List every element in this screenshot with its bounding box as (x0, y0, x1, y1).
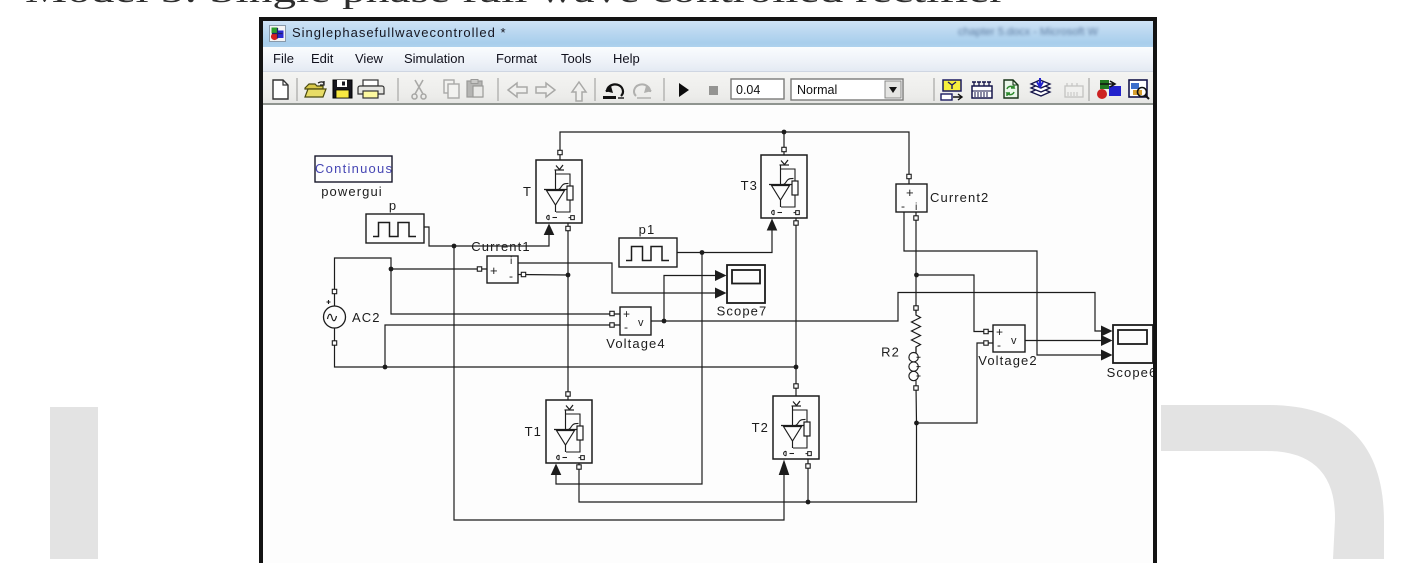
port R2 bottom (914, 386, 918, 390)
redo icon (disabled) (634, 84, 652, 99)
node p1 output branch (700, 250, 705, 255)
node AC2 plus branch (389, 267, 394, 272)
wire: R2 bottom to T1/T2 cathode rail (579, 386, 917, 502)
wire: pulse p output to T gate (424, 227, 549, 246)
wire: junction up to T3 cathode (795, 218, 797, 367)
port T2 anode (794, 384, 798, 388)
svg-text:v: v (1011, 335, 1017, 347)
svg-text:Current2: Current2 (930, 190, 989, 205)
scope Scope7 (727, 265, 765, 303)
thyristor T2 (773, 396, 819, 459)
forward arrow icon (536, 83, 555, 97)
arrow into Scope6 input 3 (1101, 350, 1113, 361)
svg-text:p: p (389, 198, 397, 213)
port Current2 plus (907, 174, 911, 178)
undo icon (603, 84, 624, 99)
copy icon (disabled) (444, 80, 459, 98)
svg-text:AC2: AC2 (352, 310, 381, 325)
sim mode dropdown (791, 79, 903, 100)
cut scissors icon (disabled) (412, 80, 426, 99)
svg-text:R2: R2 (881, 345, 900, 360)
port Current1 minus (521, 272, 525, 276)
svg-text:Scope7: Scope7 (717, 304, 768, 319)
svg-text:+: + (906, 185, 914, 200)
arrow into Scope6 input 1 (1101, 326, 1113, 337)
port T2 cathode (806, 464, 810, 468)
port squares (332, 147, 988, 469)
port T anode (558, 150, 562, 154)
current measurement Current1 (487, 255, 518, 283)
svg-text:Voltage2: Voltage2 (978, 353, 1037, 368)
port T cathode (566, 226, 570, 230)
arrow into Scope7 input 1 (715, 270, 727, 281)
node T2 cathode junction (806, 500, 811, 505)
powergui block (315, 156, 393, 182)
arrow into Scope7 input 2 (715, 288, 727, 299)
wire: R2 top tap to Voltage2 plus (917, 275, 994, 332)
svg-text:+: + (623, 307, 630, 321)
wire: AC2 minus rail (335, 328, 797, 367)
AC source AC2 (324, 300, 346, 328)
svg-text:T1: T1 (525, 424, 542, 439)
arrow into T2 gate (779, 460, 790, 476)
port T3 anode (782, 147, 786, 151)
play button (679, 83, 689, 97)
cropped document headline above the window (0, 0, 1415, 14)
svg-text:T3: T3 (741, 178, 758, 193)
series RL branch R2 (909, 310, 921, 386)
up arrow icon (572, 82, 586, 101)
toggle browser icon (972, 82, 992, 98)
update diagram icon (1004, 80, 1018, 98)
port AC2 minus (332, 341, 336, 345)
wire: Voltage2 output to Scope6 input 2 (1025, 340, 1101, 342)
wire: top rail from T anode to Current2 (560, 132, 909, 184)
wire: Current2 minus to R2 top (915, 212, 917, 313)
node Current2/R2/Voltage2 tap (914, 273, 919, 278)
arrow into Scope6 input 2 (1101, 335, 1113, 346)
svg-text:-: - (509, 269, 513, 283)
node T3 cathode / T2 anode junction (794, 365, 799, 370)
wire: branch to Current1 plus (391, 268, 487, 270)
pulse generator p1 (619, 238, 677, 267)
voltage measurement Voltage4 (620, 307, 651, 335)
sim time field (731, 79, 784, 99)
wire: R2 bottom tap to Voltage2 minus (917, 343, 994, 423)
model explorer icon (1129, 80, 1149, 99)
stop button (disabled) (709, 86, 718, 95)
arrow into T gate (544, 224, 555, 236)
port R2 top (914, 306, 918, 310)
port Voltage2 plus (984, 329, 988, 333)
node at T3 riser (782, 130, 787, 135)
port T3 cathode (794, 221, 798, 225)
toolbar separators (297, 78, 1089, 101)
wire: Current2 i output to Scope6 input 3 (904, 212, 1101, 355)
print icon (358, 80, 384, 98)
svg-text:-: - (901, 199, 905, 213)
svg-text:powergui: powergui (321, 184, 383, 199)
node p output branch (452, 244, 457, 249)
disabled browser icon (1065, 83, 1083, 97)
arrow into T1 gate (551, 464, 562, 476)
svg-text:i: i (510, 255, 512, 267)
wire: Current1 minus to node (518, 274, 568, 277)
window border overdraw (1153, 17, 1157, 559)
svg-text:T: T (523, 184, 532, 199)
application window (259, 17, 1157, 563)
thyristor T3 (761, 155, 807, 218)
svg-text:Voltage4: Voltage4 (606, 336, 665, 351)
port T1 cathode (577, 465, 581, 469)
current measurement Current2 (896, 184, 927, 213)
pulse generator p (366, 214, 424, 243)
wire: p1 branch down to T1 gate (556, 253, 702, 485)
wire: AC2 plus to Current1 and Voltage4 plus (335, 258, 621, 314)
svg-text:Normal: Normal (797, 83, 837, 97)
svg-text:Scope6: Scope6 (1107, 365, 1158, 380)
port Voltage4 plus (610, 311, 614, 315)
wire: branch to Scope7 input 1 (664, 276, 715, 322)
wire: pulse p1 output to T3 gate (677, 231, 772, 253)
wire: Voltage4 output to Scope6 input 1 (651, 293, 1101, 332)
wire: T2 cathode drop (807, 459, 809, 502)
wire: T3 anode riser (783, 132, 785, 155)
svg-text:-: - (997, 338, 1001, 352)
voltage measurement Voltage2 (993, 325, 1025, 352)
wire: p branch down to T2 gate (454, 246, 784, 520)
wire: T cathode to T1 anode (567, 223, 569, 400)
node AC2 minus branch (383, 365, 388, 370)
svg-text:+: + (996, 325, 1003, 339)
svg-text:0.04: 0.04 (736, 83, 760, 97)
svg-text:T2: T2 (752, 420, 769, 435)
wire: junction down to T2 anode (795, 367, 797, 396)
library browser icon (1097, 80, 1121, 99)
port Current1 plus (477, 267, 481, 271)
port Voltage4 minus (610, 323, 614, 327)
node Voltage4 output branch (662, 319, 667, 324)
model browser icon (941, 80, 962, 100)
arrow into T3 gate (767, 219, 778, 231)
thyristor T (536, 160, 582, 223)
svg-text:v: v (638, 317, 644, 329)
svg-text:p1: p1 (639, 222, 656, 237)
wire: branch to Voltage4 minus (385, 325, 620, 367)
wire: Current1 i output to Scope7 input 2 (518, 263, 715, 293)
svg-text:i: i (915, 201, 917, 213)
svg-text:+: + (490, 263, 498, 278)
new file icon (273, 80, 288, 99)
open folder icon (305, 81, 326, 97)
thyristor T1 (546, 400, 592, 463)
build icon (1031, 78, 1050, 96)
save floppy icon (333, 80, 352, 98)
port Current2 minus (914, 216, 918, 220)
svg-text:Continuous: Continuous (315, 161, 393, 176)
svg-text:-: - (624, 320, 628, 334)
back arrow icon (508, 83, 527, 97)
watermark: left gray bar (50, 407, 98, 559)
port Voltage2 minus (984, 341, 988, 345)
node T cathode / Current1 minus (566, 273, 571, 278)
node R2 bottom tap (914, 421, 919, 426)
port T1 anode (566, 392, 570, 396)
paste icon (disabled) (467, 80, 483, 98)
scope Scope6 (1113, 325, 1153, 363)
port AC2 plus (332, 289, 336, 293)
